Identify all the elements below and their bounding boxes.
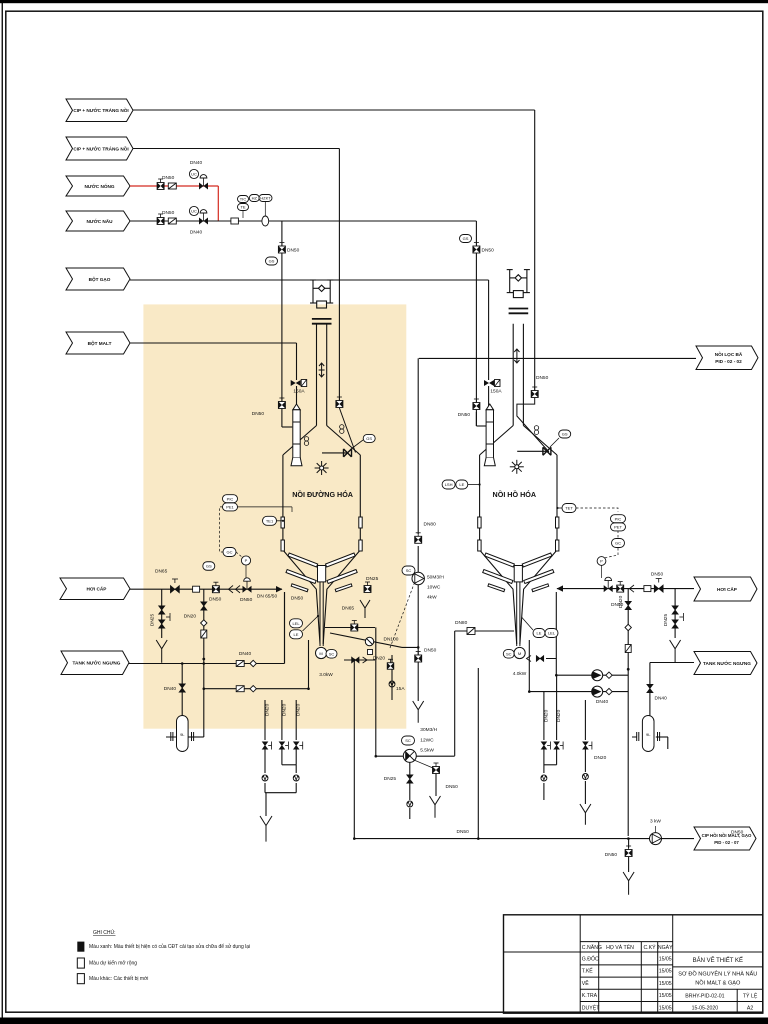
- steam trap left A: [262, 775, 268, 781]
- pipe BOT GAO drop: [488, 280, 490, 380]
- svg-text:T.KẾ: T.KẾ: [582, 968, 593, 975]
- svg-text:UC: UC: [191, 172, 197, 177]
- pipe DN50 branch down: [628, 839, 630, 848]
- flag NUOC NAU: [66, 211, 130, 231]
- drain Y bottom right: [580, 804, 591, 825]
- svg-text:DN50: DN50: [162, 175, 175, 181]
- svg-text:DN65: DN65: [155, 569, 168, 575]
- butterfly valve left dome: [344, 449, 352, 457]
- junction j6: [375, 755, 378, 758]
- pipe to drain Y left: [265, 793, 267, 816]
- svg-text:DN50: DN50: [651, 572, 664, 578]
- pipe DN25 drain left: [161, 589, 163, 638]
- svg-text:NỒI HỒ HÓA: NỒI HỒ HÓA: [493, 489, 537, 499]
- LE link to shaft left: [303, 616, 319, 632]
- pipe trap leg1 left: [264, 749, 266, 773]
- pipe trap out2 left: [295, 783, 297, 793]
- valve DN20 t3 left: [293, 742, 299, 750]
- pipe to 9L pot right: [649, 663, 651, 716]
- pipe wort outlet drop: [375, 627, 377, 756]
- pipe DN20 blowdown right: [627, 589, 629, 836]
- pipe TANK NUOC NGUNG left / condensate row1: [129, 663, 285, 665]
- valve V1 DN50 hot water: [157, 179, 164, 190]
- bottom border bar: [0, 1018, 768, 1024]
- pipe right vessel outlet drop: [454, 631, 456, 756]
- pipe 15A trap drop: [391, 655, 393, 700]
- control valve UC hot water DN40: [199, 175, 208, 190]
- instrument PE1 left: [223, 503, 238, 511]
- pipe condensate from right jacket: [528, 640, 530, 692]
- CIP spray head right: [510, 460, 524, 474]
- valve DN20 left: [201, 602, 208, 611]
- instrument HZ: [249, 195, 259, 202]
- valve DN20 slant drain: [387, 659, 394, 669]
- svg-text:M: M: [319, 651, 322, 656]
- svg-text:PID - 02 - 07: PID - 02 - 07: [714, 840, 739, 845]
- condensate pump right 2: [592, 686, 603, 697]
- drain Y pump column: [413, 701, 424, 723]
- pipe CIP2 header: [133, 148, 339, 150]
- pipe mash pump column: [417, 546, 419, 572]
- valve Z DN20 left: [201, 630, 207, 638]
- steam trap pump drain: [407, 801, 413, 807]
- svg-text:VẼ: VẼ: [582, 980, 589, 987]
- svg-text:DN100: DN100: [384, 636, 399, 642]
- svg-text:TE1: TE1: [266, 518, 274, 523]
- pipe NUOC NAU drop left vessel: [281, 221, 283, 405]
- valve DN50 right water inlet: [473, 399, 480, 410]
- svg-text:3.0kW: 3.0kW: [319, 672, 333, 678]
- valve drain right vessel: [536, 656, 544, 662]
- valve pump drain: [407, 775, 414, 784]
- svg-text:BỘT GẠO: BỘT GẠO: [89, 275, 111, 282]
- svg-text:HƠI CẤP: HƠI CẤP: [717, 586, 737, 592]
- svg-text:DN25: DN25: [663, 614, 669, 627]
- steam trap right A: [541, 775, 547, 781]
- pipe rtrap out2: [584, 781, 586, 804]
- pipe to 9L pot left: [181, 664, 183, 716]
- drain Y bottom branch: [623, 872, 634, 895]
- pipe condensate from left jacket: [308, 640, 310, 689]
- svg-text:GC: GC: [615, 541, 621, 546]
- valve DN20 rt2 right: [554, 742, 560, 750]
- pipe condensate row2 left: [204, 688, 309, 690]
- svg-text:DN25: DN25: [384, 776, 397, 782]
- svg-text:DN65: DN65: [342, 605, 355, 611]
- junction j12: [353, 659, 356, 662]
- inline spool steam left: [193, 586, 200, 592]
- pipe drain collection left: [353, 660, 355, 839]
- pipe DN20 drain leg2 left: [281, 700, 283, 740]
- junction j10: [307, 687, 310, 690]
- sprayball right CIP: [534, 426, 538, 435]
- valve DN40 9L left: [179, 684, 186, 693]
- agitator right: [478, 517, 559, 646]
- title block texts: [582, 943, 673, 1012]
- svg-text:LEL: LEL: [548, 631, 556, 636]
- svg-text:50M3/H: 50M3/H: [427, 575, 444, 581]
- pipe DN20 drain right legB: [556, 675, 558, 740]
- flag TANK NUOC NGUNG right: [694, 652, 757, 675]
- instrument LE left: [290, 630, 303, 639]
- instrument P steam left: [241, 556, 250, 565]
- valve V2 DN50 cook water: [157, 214, 164, 225]
- pipe drain collection right: [477, 668, 479, 839]
- CIP pump 30M3/H: [403, 749, 416, 762]
- svg-text:DN50: DN50: [424, 648, 437, 654]
- instrument SC cip pump: [402, 736, 415, 745]
- flag TANK NUOC NGUNG left: [61, 651, 129, 675]
- junction j2: [181, 662, 184, 665]
- svg-text:4.0kW: 4.0kW: [513, 671, 527, 677]
- instrument SC right agitator: [503, 650, 514, 659]
- TET signal dashed: [576, 508, 618, 558]
- steam trap right B: [582, 774, 588, 780]
- pipe DN20 drain right legC: [584, 700, 586, 740]
- pipe trap join left: [282, 764, 296, 766]
- svg-text:DN20: DN20: [543, 709, 549, 722]
- 9L pot left: [166, 716, 194, 752]
- GS link line left: [351, 440, 363, 449]
- valve DN25a right: [672, 606, 679, 615]
- junction j7: [353, 837, 356, 840]
- pipe DN20 drain leg3 left: [295, 700, 297, 740]
- check diamond DN20 right: [625, 624, 631, 630]
- drain Y DN25 right: [670, 640, 681, 663]
- svg-text:DN50: DN50: [240, 597, 253, 603]
- svg-text:DN40: DN40: [190, 229, 203, 235]
- pipe 9L pot outlet left: [188, 736, 204, 738]
- svg-text:TANK NƯỚC NGƯNG: TANK NƯỚC NGƯNG: [73, 659, 121, 666]
- pipe trap out1 left: [264, 783, 266, 793]
- valve DN50 bottom branch: [625, 846, 632, 857]
- valve DN40 9L right: [647, 684, 654, 693]
- instrument SC mash pump: [402, 566, 415, 575]
- svg-text:CIP HỒI NỒI MALT, GẠO: CIP HỒI NỒI MALT, GẠO: [702, 833, 752, 838]
- strainer 150A left: [291, 380, 307, 387]
- svg-text:DN25: DN25: [366, 576, 379, 582]
- pipe mash pump2 suction: [376, 755, 455, 757]
- svg-text:LSH: LSH: [445, 482, 453, 487]
- sprayball left dome: [304, 437, 308, 446]
- junction j1: [203, 662, 206, 665]
- svg-text:LE: LE: [537, 631, 542, 636]
- signal GC to P left: [236, 552, 243, 558]
- pipe HOI CAP right: [557, 588, 694, 590]
- strainer 150A right: [484, 380, 500, 387]
- svg-text:PET: PET: [614, 525, 622, 530]
- valve DN65 wort outlet left: [351, 621, 358, 632]
- svg-text:NỒI MALT & GẠO: NỒI MALT & GẠO: [695, 980, 741, 987]
- check right row2: [606, 688, 612, 694]
- svg-text:Màu khác: Các thiết bị mới: Màu khác: Các thiết bị mới: [89, 976, 148, 982]
- svg-text:15/05: 15/05: [659, 1005, 672, 1011]
- valve DN20 t1 left: [262, 742, 268, 750]
- inline ball valve cook water: [262, 216, 269, 226]
- svg-text:HỌ VÀ TÊN: HỌ VÀ TÊN: [606, 943, 634, 951]
- valve DN50 on right vessel water drop: [473, 243, 480, 254]
- svg-text:15/05: 15/05: [659, 957, 672, 963]
- pipe BOT GAO header: [130, 279, 489, 281]
- pipe mash pump discharge riser: [417, 358, 419, 534]
- valve DN50 on left vessel water drop: [278, 243, 285, 254]
- signal TIC to pipe: [242, 211, 244, 219]
- valve DN25a left: [158, 606, 165, 615]
- instrument GS water right: [460, 235, 472, 243]
- flow arrows steam right: [630, 585, 635, 592]
- valve Z2 cook water: [168, 218, 176, 224]
- instrument LSH right: [442, 480, 455, 489]
- pipe condensate from left cone: [284, 592, 286, 664]
- junction j3: [203, 687, 206, 690]
- svg-text:DN25: DN25: [150, 614, 156, 627]
- flag NUOC NONG: [66, 176, 130, 196]
- pipe NUOC NAU header: [130, 220, 476, 222]
- svg-text:SC: SC: [329, 651, 335, 656]
- svg-text:NƯỚC NÓNG: NƯỚC NÓNG: [84, 182, 114, 189]
- valve DN50 pump drain: [415, 652, 422, 663]
- steam inlet arrow left: [276, 586, 283, 592]
- svg-text:SC: SC: [405, 738, 411, 743]
- svg-text:DN40: DN40: [655, 696, 668, 702]
- pipe cip drain column: [417, 585, 419, 701]
- svg-text:DN50: DN50: [458, 412, 471, 418]
- instrument LE right bottom: [533, 629, 545, 638]
- pipe left vessel wort outlet: [325, 627, 375, 629]
- flag CIP + NUOC TRANG NOI (1): [66, 99, 133, 122]
- instrument TE: [238, 204, 249, 211]
- instrument TE1 left wall: [263, 516, 277, 525]
- vessel U1 NOI DUONG HOA (mash kettle): [283, 324, 360, 644]
- svg-text:15-05-2020: 15-05-2020: [692, 1006, 719, 1012]
- dome spray line left: [322, 452, 348, 454]
- valve Z DN40 row1 left: [236, 661, 244, 667]
- pipe DN20 drain leg1 left: [264, 700, 266, 740]
- svg-text:C.KÝ: C.KÝ: [643, 944, 656, 951]
- riser cap assembly right: [507, 270, 530, 298]
- pipe hot water drop: [217, 186, 219, 221]
- butterfly valve right dome: [543, 447, 551, 455]
- junction j8: [477, 837, 480, 840]
- svg-text:DN20: DN20: [594, 755, 607, 761]
- svg-text:SC: SC: [506, 651, 512, 656]
- valve DN25b left: [158, 620, 165, 629]
- flag CIP + NUOC TRANG NOI (2): [66, 137, 133, 160]
- svg-text:NỒI ĐƯỜNG HÓA: NỒI ĐƯỜNG HÓA: [292, 489, 353, 499]
- svg-text:DN80: DN80: [455, 620, 468, 626]
- steam inlet arrow right: [557, 585, 563, 591]
- valve B DN50 steam left: [212, 582, 219, 593]
- svg-text:DN50: DN50: [446, 784, 459, 790]
- pipe DN100 slant: [330, 633, 402, 647]
- instrument GS steam left: [203, 562, 215, 571]
- globe valve DN65 steam left: [170, 585, 179, 593]
- pipe pump drain: [409, 762, 411, 775]
- TE1 link left: [277, 520, 284, 522]
- svg-text:GHI CHÚ:: GHI CHÚ:: [93, 929, 116, 936]
- drain Y cip vent: [430, 796, 441, 818]
- flow arrows steam left: [229, 586, 241, 593]
- svg-text:HZKT: HZKT: [260, 196, 271, 201]
- instrument LE right top: [456, 480, 468, 489]
- instrument LEL left: [290, 619, 303, 628]
- svg-text:TE: TE: [240, 205, 245, 210]
- vessel U2 NOI HO HOA (gelatinization kettle): [480, 324, 557, 644]
- agitator left: [281, 517, 362, 646]
- pipe condensate stub right: [555, 592, 557, 675]
- pipe rtrap leg3: [584, 749, 586, 772]
- pipe trap collect left: [265, 792, 296, 794]
- valve drain left vessel: [352, 657, 360, 663]
- svg-text:DN50: DN50: [252, 411, 265, 417]
- flag CIP HOI NOI MALT GAO: [694, 827, 756, 850]
- svg-text:GS: GS: [463, 236, 469, 241]
- svg-text:BỘT MALT: BỘT MALT: [88, 339, 112, 346]
- pipe vent down: [435, 774, 437, 796]
- check diamond DN20 left: [201, 620, 207, 626]
- control valve UC cook water DN40: [199, 210, 208, 225]
- pipe CIP1 header: [133, 109, 535, 111]
- signal HZKT to valve: [264, 202, 266, 217]
- pipe DN20 drain right legA: [543, 692, 545, 740]
- left outer border line: [2, 0, 3, 1024]
- valve DN20 t2 left: [279, 742, 285, 750]
- svg-text:PE1: PE1: [226, 505, 234, 510]
- CIP spray jog right: [517, 398, 549, 452]
- condensate pump right 1: [592, 670, 603, 681]
- svg-text:DN40: DN40: [190, 160, 203, 166]
- svg-text:HZ: HZ: [252, 196, 258, 201]
- svg-text:3 kW: 3 kW: [650, 819, 661, 825]
- svg-text:PID - 02 - 02: PID - 02 - 02: [715, 359, 742, 364]
- svg-text:DN50: DN50: [605, 852, 618, 858]
- svg-text:CIP + NƯỚC TRÁNG NỒI: CIP + NƯỚC TRÁNG NỒI: [73, 144, 128, 151]
- LE link right top: [468, 484, 480, 486]
- svg-text:M: M: [518, 651, 521, 656]
- svg-text:GS: GS: [269, 259, 275, 264]
- pipe 9L pot outlet right: [656, 736, 668, 738]
- svg-text:DN 65/50: DN 65/50: [257, 594, 278, 600]
- svg-text:TIC: TIC: [240, 197, 247, 202]
- svg-text:15/05: 15/05: [659, 969, 672, 975]
- svg-text:DN20: DN20: [373, 656, 386, 662]
- flag NOI LOC BA: [696, 346, 758, 370]
- pipe BOT MALT drop: [296, 343, 298, 380]
- control valve steam right: [604, 577, 613, 592]
- junction j4: [528, 690, 531, 693]
- valve Z1 hot water: [168, 183, 176, 189]
- pipe CIP return bottom: [354, 838, 694, 840]
- instrument HZKT: [259, 195, 272, 202]
- damper in left riser: [319, 363, 325, 377]
- instrument PIC left: [223, 495, 238, 503]
- instrument P right: [597, 557, 606, 566]
- pipe left vessel drain: [344, 659, 375, 661]
- pipe right vessel outlet: [455, 630, 514, 632]
- svg-text:DN20: DN20: [556, 709, 562, 722]
- svg-text:DN50: DN50: [536, 375, 549, 381]
- svg-text:DN20: DN20: [618, 595, 624, 608]
- instrument TIC: [238, 196, 249, 203]
- highlight area (existing equipment zone): [143, 304, 406, 728]
- svg-text:GS: GS: [206, 564, 212, 569]
- svg-text:P: P: [245, 558, 248, 563]
- svg-text:PIC: PIC: [227, 496, 234, 501]
- valve DN80 pump discharge: [415, 533, 422, 544]
- check DN40 row1 left: [250, 660, 256, 666]
- instrument GC right: [612, 539, 625, 548]
- svg-text:TANK NƯỚC NGƯNG: TANK NƯỚC NGƯNG: [703, 659, 751, 666]
- flag HOI CAP left: [60, 578, 130, 600]
- B box on slant valve: [368, 650, 373, 655]
- valve Z DN20 right: [625, 645, 631, 653]
- svg-text:DN50: DN50: [162, 210, 175, 216]
- svg-text:12WC: 12WC: [420, 738, 434, 744]
- top border bar: [0, 0, 768, 3]
- svg-text:BRHY-PID-02-01: BRHY-PID-02-01: [685, 994, 724, 1000]
- valve DN80 right outlet: [467, 628, 475, 635]
- svg-text:150A: 150A: [293, 389, 305, 395]
- inline reducer cook water: [231, 218, 239, 224]
- pipe rtrap leg1: [543, 749, 545, 773]
- instrument PIC right: [611, 515, 626, 523]
- svg-text:P: P: [600, 559, 603, 564]
- svg-text:DN20: DN20: [296, 703, 302, 716]
- junction j9: [417, 646, 420, 649]
- svg-text:15/05: 15/05: [659, 981, 672, 987]
- junction j11: [627, 837, 630, 840]
- svg-text:DN20: DN20: [281, 703, 287, 716]
- sprayball left CIP: [340, 425, 344, 434]
- instrument PET right: [611, 523, 626, 531]
- svg-text:DN40: DN40: [596, 699, 609, 705]
- pipe TANK NUOC NGUNG right: [650, 662, 694, 664]
- pipe NUOC NONG (hot water): [130, 185, 218, 187]
- motor M left: [316, 647, 327, 658]
- pipe 9L right outlet drop: [667, 737, 669, 749]
- svg-text:DN50: DN50: [482, 248, 495, 254]
- pipe water to left premasher: [282, 426, 292, 428]
- pipe NUOC NAU drop right vessel: [475, 221, 477, 426]
- pipe CIP2 drop to left vessel: [338, 149, 340, 403]
- pump P1 50M3/H mash transfer: [412, 572, 424, 584]
- svg-text:15A: 15A: [396, 686, 405, 692]
- inline spool steam right: [644, 586, 651, 592]
- pipe rtrap leg2a: [556, 749, 558, 765]
- svg-text:NGÀY: NGÀY: [658, 944, 673, 951]
- svg-text:9L: 9L: [646, 732, 651, 737]
- svg-text:Màu dự kiến mở rộng: Màu dự kiến mở rộng: [89, 960, 137, 967]
- svg-text:DN40: DN40: [164, 686, 177, 692]
- svg-text:LEL: LEL: [292, 621, 300, 626]
- pipe condensate row1 right: [556, 674, 628, 676]
- instrument SC left agitator: [326, 650, 337, 659]
- svg-text:SC: SC: [406, 568, 412, 573]
- valve DN20 right: [625, 601, 632, 610]
- svg-text:TET: TET: [565, 506, 573, 511]
- steam trap 15A: [389, 681, 395, 687]
- pipe trap leg3b left: [295, 765, 297, 773]
- pipe water elbow right: [475, 412, 477, 426]
- CIP spray slant left: [339, 408, 355, 453]
- pipe mash transfer to NOI LOC BA: [419, 357, 696, 359]
- pipe DN20 blowdown left: [203, 589, 205, 737]
- svg-text:Màu xanh: Màu thiết bị hiện có: Màu xanh: Màu thiết bị hiện có của CĐT c…: [89, 943, 250, 950]
- ball valve on DN100 slant: [365, 637, 373, 645]
- pipe BOT MALT to premasher: [296, 386, 298, 411]
- svg-text:SƠ ĐỒ NGUYÊN LÝ NHÀ NẤU: SƠ ĐỒ NGUYÊN LÝ NHÀ NẤU: [678, 970, 757, 978]
- flag HOI CAP right: [694, 577, 757, 601]
